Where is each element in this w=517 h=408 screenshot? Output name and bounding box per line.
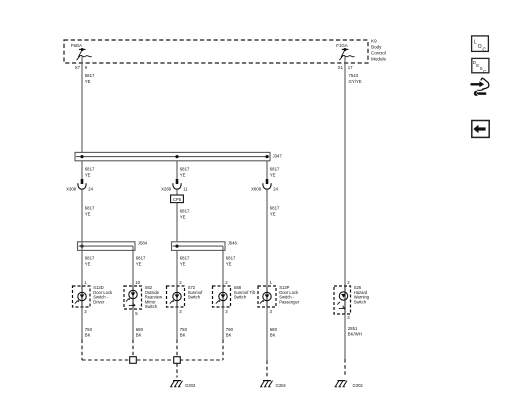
switch S68 Sunroof Tilt Switch bbox=[213, 280, 256, 314]
svg-text:X808: X808 bbox=[251, 186, 262, 191]
svg-text:J584: J584 bbox=[138, 241, 148, 246]
wire J584 to S13D with 6817 YE label bbox=[82, 242, 95, 286]
svg-text:790: 790 bbox=[226, 327, 234, 332]
svg-text:6817: 6817 bbox=[85, 256, 95, 261]
svg-text:C: C bbox=[482, 47, 486, 53]
svg-text:6817: 6817 bbox=[180, 167, 190, 172]
wire 2851 BK/WH from S26 to G302 bbox=[345, 314, 362, 377]
wire X808 to S13P with 6817 YE label bbox=[267, 189, 280, 286]
svg-text:J546: J546 bbox=[228, 241, 238, 246]
wire J546 to S72 with 6817 YE label bbox=[177, 250, 190, 286]
svg-text:L: L bbox=[474, 40, 477, 46]
svg-text:6817: 6817 bbox=[180, 209, 190, 214]
svg-text:O: O bbox=[478, 44, 482, 50]
splice pack J546 bbox=[172, 241, 238, 251]
fuse F1GA bbox=[336, 43, 354, 60]
sidebar repair instructions icon bbox=[471, 78, 489, 96]
svg-text:6817: 6817 bbox=[270, 206, 280, 211]
svg-text:BK: BK bbox=[85, 333, 91, 338]
wire 6817 YE J347 to X308 bbox=[82, 161, 95, 180]
splice pack J584 bbox=[78, 241, 148, 251]
svg-text:C: C bbox=[483, 69, 486, 74]
svg-text:G302: G302 bbox=[353, 383, 364, 388]
wire J584 to S62 with 6817 YE label bbox=[133, 246, 146, 286]
svg-text:Control: Control bbox=[371, 50, 386, 55]
svg-text:2851: 2851 bbox=[348, 326, 358, 331]
svg-text:BK: BK bbox=[180, 333, 186, 338]
sidebar DESC button bbox=[472, 58, 489, 74]
svg-text:J347: J347 bbox=[273, 153, 283, 158]
dashed wire splice to G303 bbox=[176, 363, 178, 377]
svg-text:10: 10 bbox=[135, 280, 140, 285]
connector CP5 bbox=[171, 189, 184, 202]
inline connector X289 pin 11 bbox=[161, 179, 188, 191]
splice pack J347 bbox=[75, 152, 282, 160]
wire 6817 YE from F6DA to J347 bbox=[82, 57, 95, 153]
svg-text:K9: K9 bbox=[371, 38, 377, 43]
svg-text:6817: 6817 bbox=[226, 256, 236, 261]
svg-text:680: 680 bbox=[270, 327, 278, 332]
svg-text:17: 17 bbox=[348, 65, 353, 70]
inline connector X308 pin 24 bbox=[66, 179, 93, 191]
inline connector X808 pin 24 bbox=[251, 179, 278, 191]
svg-text:Switch: Switch bbox=[234, 295, 247, 300]
body control module K9 dashed box bbox=[64, 40, 368, 63]
wire 790 BK from S68 bbox=[223, 307, 234, 360]
svg-text:YE: YE bbox=[180, 261, 186, 266]
svg-text:X1: X1 bbox=[338, 65, 344, 70]
svg-text:11: 11 bbox=[183, 186, 188, 191]
svg-text:24: 24 bbox=[88, 186, 93, 191]
svg-text:Switch: Switch bbox=[354, 299, 367, 304]
svg-text:CP5: CP5 bbox=[173, 197, 182, 202]
svg-text:Switch: Switch bbox=[188, 295, 201, 300]
svg-text:6817: 6817 bbox=[85, 206, 95, 211]
wire 6817 YE J347 to X808 bbox=[267, 161, 280, 180]
svg-text:Driver: Driver bbox=[93, 299, 105, 304]
connector X1 pin 17 bbox=[338, 65, 353, 70]
svg-text:YE: YE bbox=[136, 261, 142, 266]
svg-text:24: 24 bbox=[273, 186, 278, 191]
wire J546 to S68 with 6817 YE label bbox=[223, 246, 236, 286]
splice square on ground bus at S62 column bbox=[130, 357, 137, 364]
svg-text:X7: X7 bbox=[75, 65, 81, 70]
ground G304 bbox=[260, 381, 286, 388]
svg-text:750: 750 bbox=[180, 327, 188, 332]
switch S62 Outside Rearview Mirror Switch bbox=[124, 280, 163, 316]
svg-text:YE: YE bbox=[270, 211, 276, 216]
svg-text:6817: 6817 bbox=[85, 167, 95, 172]
wire 750 BK from S13D bbox=[82, 307, 93, 360]
switch S13D Door Lock Switch - Driver bbox=[73, 280, 114, 314]
svg-text:YE: YE bbox=[226, 261, 232, 266]
svg-text:F6DA: F6DA bbox=[71, 43, 82, 48]
switch S13P Door Lock Switch - Passenger bbox=[258, 280, 300, 314]
svg-text:YE: YE bbox=[180, 214, 186, 219]
wire 750 BK from S72 bbox=[177, 307, 188, 357]
splice square on ground bus at S72 column bbox=[174, 357, 181, 364]
svg-text:G303: G303 bbox=[185, 383, 196, 388]
wire 6817 YE J347 to X289 bbox=[177, 161, 190, 180]
svg-text:BK: BK bbox=[136, 333, 142, 338]
svg-text:YE: YE bbox=[85, 172, 91, 177]
wire X308 to J584 with 6817 YE label bbox=[82, 189, 95, 242]
sidebar back button bbox=[472, 121, 489, 138]
sidebar LOC button bbox=[472, 36, 489, 54]
svg-text:X289: X289 bbox=[161, 186, 172, 191]
svg-text:Passenger: Passenger bbox=[279, 299, 300, 304]
svg-text:7543: 7543 bbox=[349, 73, 359, 78]
svg-text:G304: G304 bbox=[276, 383, 287, 388]
svg-text:6817: 6817 bbox=[136, 256, 146, 261]
wire 7543 GY/YE from F1GA to S26 bbox=[345, 57, 362, 286]
svg-text:YE: YE bbox=[85, 261, 91, 266]
svg-text:Switch: Switch bbox=[145, 304, 158, 309]
svg-text:6817: 6817 bbox=[270, 167, 280, 172]
svg-text:BK/WH: BK/WH bbox=[348, 332, 362, 337]
svg-text:Body: Body bbox=[371, 44, 382, 49]
svg-text:YE: YE bbox=[180, 172, 186, 177]
svg-text:BK: BK bbox=[226, 333, 232, 338]
wire 680 BK from S13P to G304 bbox=[267, 307, 278, 378]
svg-text:BK: BK bbox=[270, 333, 276, 338]
svg-text:YE: YE bbox=[85, 79, 91, 84]
svg-text:YE: YE bbox=[85, 211, 91, 216]
switch S72 Sunroof Switch bbox=[167, 280, 204, 314]
svg-text:F1GA: F1GA bbox=[336, 43, 348, 48]
wire CP5 to J546 with 6817 YE label bbox=[177, 203, 190, 242]
svg-text:X308: X308 bbox=[66, 186, 77, 191]
svg-text:750: 750 bbox=[85, 327, 93, 332]
svg-text:6817: 6817 bbox=[180, 256, 190, 261]
ground bus dashed wire bbox=[82, 359, 223, 361]
wire 680 BK from S62 bbox=[133, 309, 144, 357]
svg-text:Module: Module bbox=[371, 56, 387, 61]
connector X7 pin 9 bbox=[75, 65, 88, 70]
svg-text:GY/YE: GY/YE bbox=[349, 79, 362, 84]
svg-text:680: 680 bbox=[136, 327, 144, 332]
svg-text:6817: 6817 bbox=[85, 73, 95, 78]
K9 Body Control Module label bbox=[371, 38, 387, 61]
svg-text:YE: YE bbox=[270, 172, 276, 177]
switch S26 Hazard Warning Switch bbox=[334, 280, 370, 320]
fuse F6DA bbox=[71, 43, 92, 60]
ground G302 bbox=[335, 381, 364, 388]
ground G303 bbox=[170, 381, 196, 388]
